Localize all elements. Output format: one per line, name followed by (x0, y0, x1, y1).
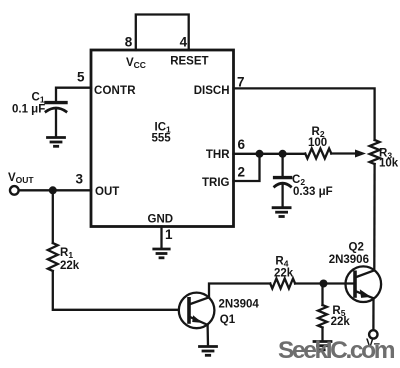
svg-text:4: 4 (180, 35, 188, 50)
svg-text:2N3904: 2N3904 (219, 299, 260, 311)
svg-text:1: 1 (165, 227, 173, 242)
wire junction down to R5 (321, 284, 323, 306)
svg-text:100: 100 (308, 137, 327, 149)
svg-text:3: 3 (76, 172, 84, 187)
svg-text:Q1: Q1 (220, 314, 236, 326)
ground (below pin 1) (154, 249, 169, 258)
wire C1 to ground (55, 110, 57, 137)
ground (below C1) (48, 138, 65, 147)
resistor R2 100 (305, 149, 331, 159)
op-amp U1: IC1 555 body (91, 50, 234, 227)
wire DISCH pin7 right and down to R3 (234, 88, 375, 140)
wire Q2 emitter down to terminal (372, 298, 374, 330)
svg-text:2N3906: 2N3906 (329, 254, 369, 266)
svg-text:22k: 22k (274, 268, 294, 280)
wire pin8 to pin4 top loop (136, 15, 189, 51)
svg-text:THR: THR (206, 149, 230, 161)
node junction OUT/R1 (49, 186, 57, 194)
capacitor C1 (46, 103, 66, 112)
svg-text:OUT: OUT (95, 186, 119, 198)
resistor R1 22k (48, 243, 58, 271)
capacitor C2 (275, 178, 291, 187)
wire R4 to Q2 base (295, 282, 355, 284)
svg-text:TRIG: TRIG (202, 177, 230, 189)
wire R1 to Q1 base (53, 271, 179, 310)
svg-text:2: 2 (238, 165, 246, 180)
svg-text:7: 7 (237, 75, 245, 90)
svg-text:GND: GND (148, 214, 174, 226)
svg-text:DISCH: DISCH (194, 85, 230, 97)
svg-text:8: 8 (125, 35, 133, 50)
wire CONTR pin5 stub to C1 (56, 88, 91, 101)
wire Q1 emitter down (206, 325, 209, 346)
svg-text:6: 6 (238, 137, 246, 152)
node junction R4/R5/Q2 (320, 280, 328, 288)
transistor Q2 2N3906 (346, 266, 382, 302)
wire C2 junction down (281, 154, 283, 176)
wire junction down to R1 (52, 190, 54, 243)
wire Q1 collector up and right (209, 284, 270, 298)
svg-text:CONTR: CONTR (94, 85, 136, 97)
svg-text:22k: 22k (331, 316, 351, 328)
node junction THR/TRIG (256, 150, 264, 158)
resistor R3 10k (370, 140, 380, 164)
resistor R5 22k (318, 305, 327, 328)
wire THR pin6 right to R2 (234, 153, 306, 155)
ground (below C2) (273, 208, 290, 217)
svg-text:0.1 μF: 0.1 μF (12, 104, 45, 116)
ground (below Q1) (200, 347, 217, 356)
wire R3 down to Q2 collector (373, 164, 376, 270)
wire TRIG pin2 right and up (234, 154, 260, 181)
terminal V- (369, 330, 377, 338)
ground (below R5) (314, 342, 331, 350)
resistor R4 22k (270, 279, 295, 289)
svg-text:0.33 μF: 0.33 μF (293, 186, 333, 198)
svg-text:SeekIC.com: SeekIC.com (278, 337, 396, 364)
svg-text:RESET: RESET (170, 56, 208, 68)
svg-text:10k: 10k (379, 158, 399, 170)
svg-text:555: 555 (152, 133, 172, 145)
svg-text:5: 5 (77, 70, 85, 85)
wire OUT pin3 to VOUT terminal (19, 189, 91, 191)
wire C2 to ground (281, 185, 283, 207)
wire R2 wiper arrow to R3 (331, 152, 357, 154)
wire R5 to ground (321, 328, 323, 342)
wire GND pin1 to ground (160, 227, 162, 249)
svg-text:Q2: Q2 (349, 242, 364, 254)
terminal VOUT (10, 186, 19, 195)
transistor Q1 2N3904 (179, 293, 215, 329)
node junction C2 (279, 150, 287, 158)
svg-text:22k: 22k (60, 260, 80, 272)
